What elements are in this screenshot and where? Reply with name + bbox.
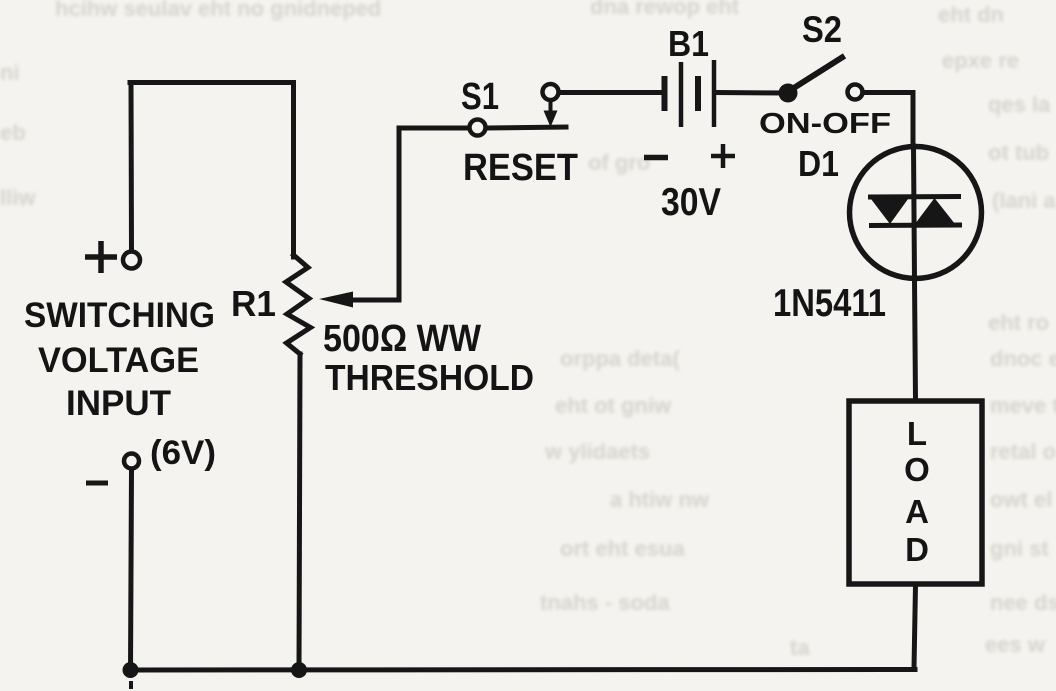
switch S1 lower contact (open circle): [470, 120, 486, 136]
svg-text:nee ds: nee ds: [990, 590, 1056, 615]
diac D1 symbol: top bar: [868, 194, 961, 200]
svg-text:eht ot gniw: eht ot gniw: [555, 393, 672, 418]
switch S1 plunger arrowhead: [544, 111, 558, 128]
R1 wiper arrowhead: [319, 292, 353, 308]
svg-text:(6V): (6V): [150, 434, 216, 472]
svg-text:eb: eb: [0, 120, 26, 145]
svg-text:D: D: [905, 531, 929, 568]
wire: S1 upper contact to battery: [559, 90, 663, 95]
schematic ink: [123, 58, 982, 671]
battery plate short 1: [662, 76, 668, 111]
svg-text:dnoc e: dnoc e: [990, 346, 1056, 371]
svg-text:RESET: RESET: [463, 147, 578, 189]
resistor R1 (potentiometer zigzag): [286, 255, 311, 354]
svg-text:THRESHOLD: THRESHOLD: [325, 357, 534, 398]
battery B1 plates: [665, 60, 715, 127]
switch S1 upper contact (open circle): [543, 84, 559, 100]
svg-text:30V: 30V: [661, 181, 721, 224]
wire: D1 to LOAD box: [915, 280, 916, 400]
svg-text:ort eht esua: ort eht esua: [560, 536, 685, 561]
svg-text:(lani a: (lani a: [992, 188, 1056, 213]
wire: S2 to D1 top corner: [863, 93, 913, 147]
wire: R1 top lead vertical: [291, 83, 296, 258]
node: negative terminal (open circle): [124, 454, 139, 469]
node: bottom-left junction dot: [123, 662, 139, 678]
wire: LOAD bottom lead: [914, 585, 916, 668]
svg-text:D1: D1: [798, 143, 839, 184]
wire: wiper arm from arrow corner up to S1: [350, 128, 469, 300]
svg-text:L: L: [907, 415, 927, 452]
svg-text:qes la: qes la: [988, 92, 1051, 117]
switch S2 throw contact (open circle): [848, 85, 863, 100]
node: S2 pole junction dot: [779, 84, 798, 103]
svg-text:ot tub: ot tub: [988, 140, 1049, 165]
svg-text:ON-OFF: ON-OFF: [759, 108, 891, 140]
svg-text:owt el: owt el: [990, 487, 1052, 512]
polarity + mark (input): [85, 241, 117, 273]
label battery plus: [711, 144, 735, 168]
wire: R1 bottom lead: [299, 354, 300, 670]
diode D1 envelope circle: [850, 147, 982, 279]
diac D1 symbol: bottom bar: [869, 223, 962, 229]
svg-text:hcihw seulav eht no gnidneped: hcihw seulav eht no gnidneped: [55, 0, 381, 21]
svg-text:a htiw nw: a htiw nw: [610, 487, 710, 512]
diac D1 right triangle (points up): [915, 198, 955, 224]
battery plate long 2: [712, 60, 717, 127]
svg-text:eht ro: eht ro: [988, 310, 1049, 335]
polarity - mark (input): [86, 481, 108, 486]
node + input terminal (open circle): [123, 252, 140, 269]
svg-text:meve t: meve t: [990, 393, 1056, 418]
svg-text:ees w: ees w: [985, 632, 1046, 657]
svg-text:gni st: gni st: [990, 536, 1049, 561]
svg-text:dna rewop eht: dna rewop eht: [590, 0, 740, 19]
switch S2 arm: [789, 58, 842, 92]
svg-text:lliw: lliw: [0, 185, 36, 210]
svg-text:of gro: of gro: [588, 150, 650, 175]
label battery minus: [644, 155, 668, 161]
svg-text:w ylidaets: w ylidaets: [544, 439, 650, 464]
svg-text:S1: S1: [461, 76, 499, 118]
node: R1 bottom junction dot: [291, 662, 307, 678]
svg-text:O: O: [904, 451, 930, 488]
svg-text:S2: S2: [802, 9, 842, 50]
svg-text:VOLTAGE: VOLTAGE: [38, 341, 199, 380]
svg-text:INPUT: INPUT: [66, 384, 171, 423]
wire: S1 lower contact to right stub: [487, 127, 566, 128]
svg-text:retal o: retal o: [990, 439, 1056, 464]
svg-text:ni: ni: [0, 60, 20, 85]
wire: bottom return bus: [130, 667, 916, 673]
switch S1 plunger shaft: [549, 101, 553, 112]
wire: vertical through D1: [914, 146, 915, 280]
svg-text:1N5411: 1N5411: [773, 282, 886, 325]
wire: left vertical down to + terminal: [129, 83, 135, 251]
artifact tick below junction: [129, 681, 133, 689]
svg-text:SWITCHING: SWITCHING: [24, 296, 215, 335]
svg-text:epxe re: epxe re: [942, 48, 1019, 73]
svg-text:A: A: [905, 493, 929, 530]
svg-text:R1: R1: [231, 283, 276, 324]
diac D1 left triangle (points down): [871, 199, 908, 224]
wire: negative input terminal lead: [131, 470, 132, 670]
svg-text:500Ω WW: 500Ω WW: [323, 318, 481, 360]
load box: [849, 401, 982, 584]
battery plate long 1: [679, 62, 684, 127]
wire: battery positive to S2 pole: [716, 90, 785, 96]
battery plate short 2: [695, 76, 701, 111]
svg-text:eht dn: eht dn: [938, 2, 1004, 27]
svg-text:tnahs - soda: tnahs - soda: [540, 590, 670, 615]
svg-text:B1: B1: [668, 23, 709, 64]
svg-text:orppa deta(: orppa deta(: [560, 346, 680, 371]
wire: top horizontal from + input branch to R1 branch: [130, 80, 293, 85]
svg-text:ta: ta: [790, 635, 810, 660]
